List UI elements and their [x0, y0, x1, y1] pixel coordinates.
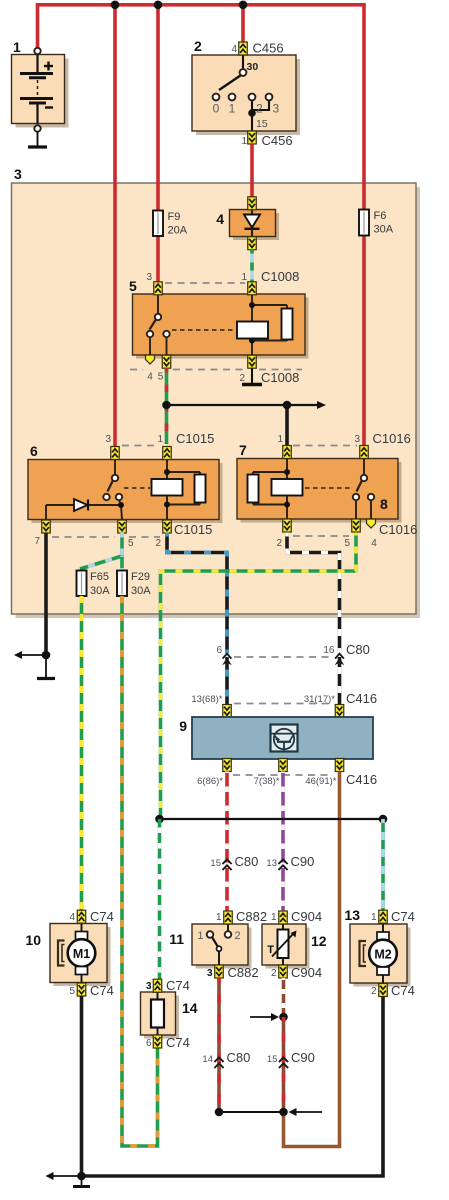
svg-text:C80: C80 [346, 642, 370, 657]
ground bus junction node [77, 1172, 86, 1181]
junction node left [155, 815, 164, 824]
motor M1 (component 10) [25, 924, 110, 987]
wire: relay 7 pin 5 to junction (green/yellow) [161, 533, 357, 820]
wire: relay 6 pin 7 to ground (black) [44, 533, 48, 656]
relay 6 connector pin 5 [118, 520, 134, 549]
wire: junction to relay 7 pin 1 (black) [285, 405, 289, 448]
relay 5 connector pin 5 [158, 355, 171, 382]
svg-text:30A: 30A [374, 224, 394, 236]
wire: bus to relay 6 pin 3 [113, 5, 117, 448]
svg-text:12: 12 [311, 933, 327, 949]
junction node on bus x=243 [239, 1, 248, 10]
resistor 14 connector pin 3 C74 [146, 978, 190, 993]
connector pin 4 C456 [231, 41, 283, 56]
connector C416 pin 31(17)* [304, 691, 377, 718]
wire: bus to fuse F9 [156, 5, 160, 211]
connector line C1016 bottom [293, 535, 349, 537]
svg-text:C456: C456 [262, 133, 293, 148]
svg-text:2: 2 [194, 38, 202, 54]
thermistor 12 connector pin 2 C904 [271, 965, 322, 980]
svg-text:F65: F65 [90, 571, 109, 583]
wire: fuse F65 to motor M1 pin 4 (green/yellow) [80, 596, 84, 911]
svg-text:C74: C74 [90, 909, 114, 924]
svg-text:2: 2 [256, 102, 263, 116]
module 9 connector pin 6(86)* C416 [197, 759, 231, 788]
svg-text:4: 4 [216, 211, 224, 227]
battery ground [28, 132, 47, 148]
module 9 connector pin 46(91)* C416 [305, 759, 377, 788]
svg-text:M1: M1 [73, 947, 90, 961]
svg-text:3: 3 [146, 272, 152, 283]
svg-text:1: 1 [157, 434, 163, 445]
connector C90 pin 13 [266, 854, 314, 870]
wire: junction to resistor 14 pin 3 (green/white) [158, 819, 162, 980]
wire linking bottom nodes (black) [219, 1111, 284, 1113]
svg-text:1: 1 [197, 930, 203, 942]
connector line C1015 top [122, 445, 159, 447]
connector line C1008 top labels [146, 269, 299, 284]
wire: node down (brown/red) [282, 1017, 286, 1112]
svg-text:4: 4 [69, 912, 75, 923]
svg-text:C74: C74 [166, 1035, 190, 1050]
svg-text:2: 2 [235, 930, 241, 942]
svg-text:2: 2 [276, 538, 282, 549]
connector C416 pin 13(68)* [191, 694, 231, 718]
junction node on bus x=158 [154, 1, 163, 10]
relay 6 connector pin 1 C1015 [157, 431, 214, 460]
wire: bus to ignition switch pin 4 [241, 5, 245, 43]
relay box 3 (engine compartment unit) [12, 166, 421, 618]
connector C80 pin 6 [216, 645, 231, 665]
wire: module 9 to thermistor 12 (purple/white) [281, 772, 285, 912]
junction node at ground branch [42, 651, 51, 660]
motor M1 connector pin 5 C74 [69, 983, 113, 998]
connector line C1008 bottom [130, 369, 302, 371]
svg-text:3: 3 [354, 434, 360, 445]
svg-text:2: 2 [155, 538, 161, 549]
connector line C80 [234, 656, 331, 658]
svg-text:1: 1 [216, 912, 222, 923]
svg-text:14: 14 [202, 1054, 213, 1065]
svg-text:M2: M2 [374, 948, 391, 962]
relay 7 connector pin 5 [344, 519, 360, 549]
wire: module 9 to switch 11 (red/white) [225, 772, 229, 912]
svg-text:C90: C90 [291, 1050, 315, 1065]
diode 4 [216, 210, 279, 241]
wire: fuse F29 to resistor 14 pin 6 (green/orange) [122, 596, 158, 1146]
reference arrow into node (right) [250, 1013, 279, 1021]
relay 5 [129, 278, 309, 359]
junction node above relay 7 [283, 401, 292, 410]
svg-text:31(17)*: 31(17)* [304, 694, 335, 705]
fuse F9 20A [153, 211, 188, 237]
wire: motor M1 to ground bus (black) [80, 996, 84, 1176]
relay 7 connector pin 4 C1016 (no wire) [367, 519, 418, 549]
svg-text:8: 8 [380, 496, 388, 512]
switch 11 connector pin 3 C882 [207, 965, 259, 980]
relay 6 connector pin 7 [34, 520, 50, 547]
svg-text:6: 6 [146, 1038, 152, 1049]
svg-text:1: 1 [13, 39, 21, 55]
relay 7 connector pin 3 C1016 [354, 431, 410, 459]
junction node below relay 5 [162, 401, 171, 410]
svg-text:C80: C80 [235, 854, 259, 869]
relay 6 connector pin 2 C1015 [155, 520, 212, 549]
relay 5 connector pin 1 [248, 282, 257, 295]
wire: module 9 pin 46(91) long run (brown) [284, 772, 340, 1147]
ground symbol bottom [73, 1176, 90, 1187]
wire: junction to motor M2 pin 1 (green/light-blue) [381, 819, 385, 911]
svg-text:13(68)*: 13(68)* [191, 694, 222, 705]
wire: relay 5 pin 5 to relay 6 pin 1 (green/red) [165, 368, 169, 444]
wire: thermistor 12 pin 2 down (brown/white) [282, 978, 286, 1017]
svg-text:30A: 30A [131, 585, 151, 597]
svg-text:C1016: C1016 [373, 431, 411, 446]
thermistor 12 connector pin 1 C904 [271, 909, 322, 924]
svg-text:F29: F29 [131, 571, 150, 583]
svg-text:13: 13 [266, 858, 277, 869]
switch 11 connector pin 1 C882 [216, 909, 267, 924]
svg-text:1: 1 [229, 102, 236, 116]
svg-text:1: 1 [271, 912, 277, 923]
svg-text:C416: C416 [346, 691, 377, 706]
svg-text:3: 3 [105, 434, 111, 445]
wire: relay 7 pin 2 to C80 pin 16 (black/white) [287, 533, 340, 706]
junction node right [379, 815, 388, 824]
wire: relay 6 pin 2 to C80 pin 6 (black/light-blue) [167, 533, 227, 706]
svg-text:6(86)*: 6(86)* [197, 776, 223, 787]
reference arrow to other circuit (right) [167, 401, 327, 409]
junction node bottom left [215, 1108, 224, 1117]
connector pin 1 C456 [241, 131, 292, 148]
svg-text:3: 3 [146, 981, 152, 992]
svg-text:C1015: C1015 [176, 431, 214, 446]
svg-text:20A: 20A [168, 225, 188, 237]
svg-text:14: 14 [182, 1000, 198, 1016]
svg-text:3: 3 [273, 102, 280, 116]
ground reference arrow left [14, 651, 44, 659]
connector C80 pin 14 [202, 1050, 250, 1068]
svg-text:C882: C882 [228, 965, 259, 980]
svg-text:C90: C90 [291, 854, 315, 869]
fuse F29 30A [117, 571, 151, 598]
svg-text:C1016: C1016 [379, 522, 417, 537]
svg-text:5: 5 [344, 538, 350, 549]
motor M1 connector pin 4 C74 [69, 909, 113, 924]
relay 6 connector pin 3 C1015 [105, 434, 119, 460]
svg-text:C416: C416 [346, 772, 377, 787]
motor M2 (component 13) [344, 907, 410, 987]
svg-text:6: 6 [216, 645, 222, 656]
connector line C416 bottom [233, 774, 333, 776]
junction node at thermistor branch [279, 1013, 288, 1022]
svg-text:C74: C74 [90, 983, 114, 998]
wire: switch pin 15 to diode 4 (red) [250, 144, 254, 198]
svg-text:7(38)*: 7(38)* [254, 776, 280, 787]
wire: motor M2 to ground bus (black) [82, 997, 384, 1177]
wire: relay 6 pin 5 to fuses F65/F29 (green/light-blue) [82, 533, 123, 572]
svg-text:T: T [267, 944, 274, 956]
svg-text:5: 5 [128, 538, 134, 549]
svg-text:4: 4 [231, 44, 237, 55]
fuse F6 30A [359, 210, 394, 236]
svg-text:C1008: C1008 [261, 269, 299, 284]
control module 9 [179, 717, 373, 759]
svg-text:15: 15 [267, 1054, 278, 1065]
motor M2 connector pin 2 C74 [371, 983, 415, 998]
wire: switch 11 pin 3 down (brown/red) [217, 978, 221, 1112]
svg-text:3: 3 [207, 968, 213, 979]
relay 7 [237, 442, 402, 523]
junction node on bus x=115 [111, 1, 120, 10]
connector C80 pin 16 [323, 642, 369, 665]
svg-text:13: 13 [344, 907, 360, 923]
svg-text:1: 1 [241, 272, 247, 283]
connector C90 pin 15 [267, 1050, 315, 1068]
fuse F65 30A [77, 571, 111, 598]
connector line C416 top [234, 703, 331, 705]
svg-text:C74: C74 [166, 978, 190, 993]
relay 7 connector pin 2 [276, 519, 291, 549]
svg-text:C904: C904 [291, 909, 322, 924]
resistor 14 [141, 992, 198, 1039]
svg-text:7: 7 [239, 442, 247, 458]
relay 5 connector pin 3 [154, 282, 163, 295]
svg-text:C1015: C1015 [174, 522, 212, 537]
thermistor 12 [262, 924, 327, 969]
motor M2 connector pin 1 C74 [371, 909, 415, 924]
relay 7 connector pin 1 [277, 434, 291, 459]
svg-text:11: 11 [169, 931, 184, 947]
svg-text:1: 1 [277, 434, 283, 445]
svg-text:2: 2 [371, 986, 377, 997]
reference arrow from right (left-pointing) [289, 1108, 323, 1116]
svg-text:7: 7 [34, 536, 40, 547]
svg-text:0: 0 [213, 102, 220, 116]
connector below diode 4 [248, 237, 257, 250]
svg-text:1: 1 [241, 136, 247, 147]
wire: fuse F6 to relay 7 pin 3 [362, 236, 366, 449]
svg-text:3: 3 [14, 166, 22, 182]
svg-text:4: 4 [371, 538, 377, 549]
svg-text:5: 5 [129, 278, 137, 294]
junction node bottom right [279, 1108, 288, 1117]
svg-text:9: 9 [179, 718, 187, 734]
svg-text:F6: F6 [374, 210, 387, 222]
connector line C1015 bottom [52, 536, 160, 538]
svg-text:15: 15 [210, 858, 221, 869]
relay 5 connector pin 2 C1008 [239, 355, 299, 385]
ground at relay 5 pin 2 [242, 368, 262, 385]
svg-text:1: 1 [371, 912, 377, 923]
svg-text:C74: C74 [391, 983, 415, 998]
svg-text:C1008: C1008 [261, 370, 299, 385]
svg-text:10: 10 [25, 932, 41, 948]
battery 1 [12, 39, 69, 132]
svg-text:4: 4 [147, 372, 153, 383]
svg-text:5: 5 [158, 372, 164, 383]
top power bus wire (red) [38, 5, 365, 210]
svg-text:2: 2 [239, 373, 245, 384]
svg-text:6: 6 [30, 443, 38, 459]
relay 5 connector pin 4 (no wire) [146, 355, 155, 383]
svg-text:30A: 30A [90, 585, 110, 597]
svg-text:C882: C882 [236, 909, 267, 924]
resistor 14 connector pin 6 C74 [146, 1035, 190, 1050]
svg-text:16: 16 [323, 645, 335, 656]
wire: fuse F9 to relay 5 pin 3 [156, 236, 160, 285]
distribution wire (black) between motor branches [160, 818, 384, 820]
switch 11 [169, 924, 251, 969]
svg-text:C74: C74 [391, 909, 415, 924]
connector above diode 4 [248, 197, 257, 210]
module 9 connector pin 7(38)* C416 [254, 759, 288, 788]
svg-text:15: 15 [256, 118, 268, 130]
ground reference arrow bottom [46, 1172, 80, 1180]
relay 6 [28, 443, 223, 523]
ignition switch 2 [192, 38, 300, 135]
connector C80 pin 15 [210, 854, 258, 870]
svg-text:C456: C456 [253, 41, 284, 56]
ground below relay 6 pin 7 [37, 655, 55, 679]
svg-text:2: 2 [271, 968, 277, 979]
svg-text:F9: F9 [168, 211, 181, 223]
wire: diode 4 to relay 5 pin 1 (light-blue/green) [250, 250, 254, 285]
svg-text:46(91)*: 46(91)* [305, 776, 336, 787]
svg-text:5: 5 [69, 986, 75, 997]
svg-text:30: 30 [247, 61, 259, 73]
connector line C1016 top [293, 445, 357, 447]
svg-text:C904: C904 [291, 965, 322, 980]
svg-text:C80: C80 [227, 1050, 251, 1065]
